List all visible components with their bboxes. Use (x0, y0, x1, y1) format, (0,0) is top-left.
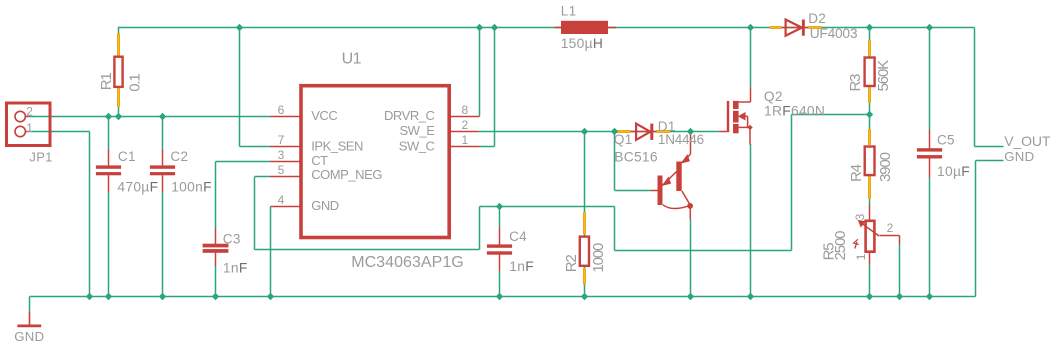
svg-text:D2: D2 (808, 11, 826, 26)
svg-text:Q1: Q1 (614, 132, 633, 147)
svg-text:JP1: JP1 (29, 149, 52, 164)
svg-text:DRVR_C: DRVR_C (384, 108, 435, 123)
svg-text:GND: GND (1004, 149, 1034, 164)
svg-text:2500: 2500 (832, 231, 849, 261)
svg-text:3: 3 (853, 213, 867, 220)
svg-text:6: 6 (278, 103, 285, 117)
svg-text:MC34063AP1G: MC34063AP1G (351, 254, 464, 271)
svg-text:C3: C3 (223, 232, 241, 247)
svg-text:470µF: 470µF (117, 180, 158, 195)
svg-text:4: 4 (278, 193, 285, 207)
svg-text:8: 8 (462, 103, 469, 117)
svg-text:R2: R2 (563, 255, 580, 273)
svg-text:VCC: VCC (311, 108, 337, 123)
svg-text:V_OUT: V_OUT (1004, 133, 1051, 149)
svg-text:1N4446: 1N4446 (658, 132, 704, 147)
svg-text:2: 2 (462, 118, 469, 132)
svg-text:1: 1 (462, 133, 469, 147)
svg-text:2: 2 (26, 105, 33, 119)
svg-text:3: 3 (278, 148, 285, 162)
svg-text:1RF640N: 1RF640N (764, 104, 825, 119)
svg-text:R1: R1 (98, 73, 115, 91)
svg-text:Q2: Q2 (764, 89, 783, 104)
svg-text:1000: 1000 (590, 243, 607, 273)
svg-text:C1: C1 (118, 149, 136, 164)
svg-text:0.1: 0.1 (126, 74, 143, 92)
svg-text:3900: 3900 (877, 152, 894, 182)
svg-text:SW_C: SW_C (399, 138, 435, 153)
svg-text:C5: C5 (937, 133, 955, 148)
svg-text:UF4003: UF4003 (810, 26, 858, 41)
svg-text:560K: 560K (875, 60, 892, 92)
svg-text:2: 2 (887, 221, 894, 235)
svg-text:150µH: 150µH (561, 36, 603, 51)
svg-text:L1: L1 (561, 4, 577, 19)
svg-text:GND: GND (14, 329, 44, 344)
svg-text:1: 1 (26, 121, 33, 135)
svg-text:COMP_NEG: COMP_NEG (311, 167, 382, 182)
svg-text:10µF: 10µF (937, 164, 970, 179)
svg-text:GND: GND (311, 198, 339, 213)
svg-text:CT: CT (311, 153, 328, 168)
svg-text:C2: C2 (170, 149, 188, 164)
svg-text:1: 1 (854, 253, 868, 260)
svg-text:IPK_SEN: IPK_SEN (311, 139, 363, 154)
svg-text:7: 7 (278, 133, 285, 147)
svg-text:1nF: 1nF (223, 260, 248, 275)
svg-text:C4: C4 (509, 229, 527, 244)
svg-text:R3: R3 (847, 74, 864, 92)
svg-text:100nF: 100nF (171, 180, 212, 195)
svg-text:U1: U1 (342, 51, 362, 68)
svg-text:R4: R4 (848, 164, 865, 182)
svg-text:BC516: BC516 (614, 150, 658, 165)
svg-text:5: 5 (278, 163, 285, 177)
svg-text:1nF: 1nF (509, 259, 534, 274)
svg-text:SW_E: SW_E (399, 123, 435, 138)
